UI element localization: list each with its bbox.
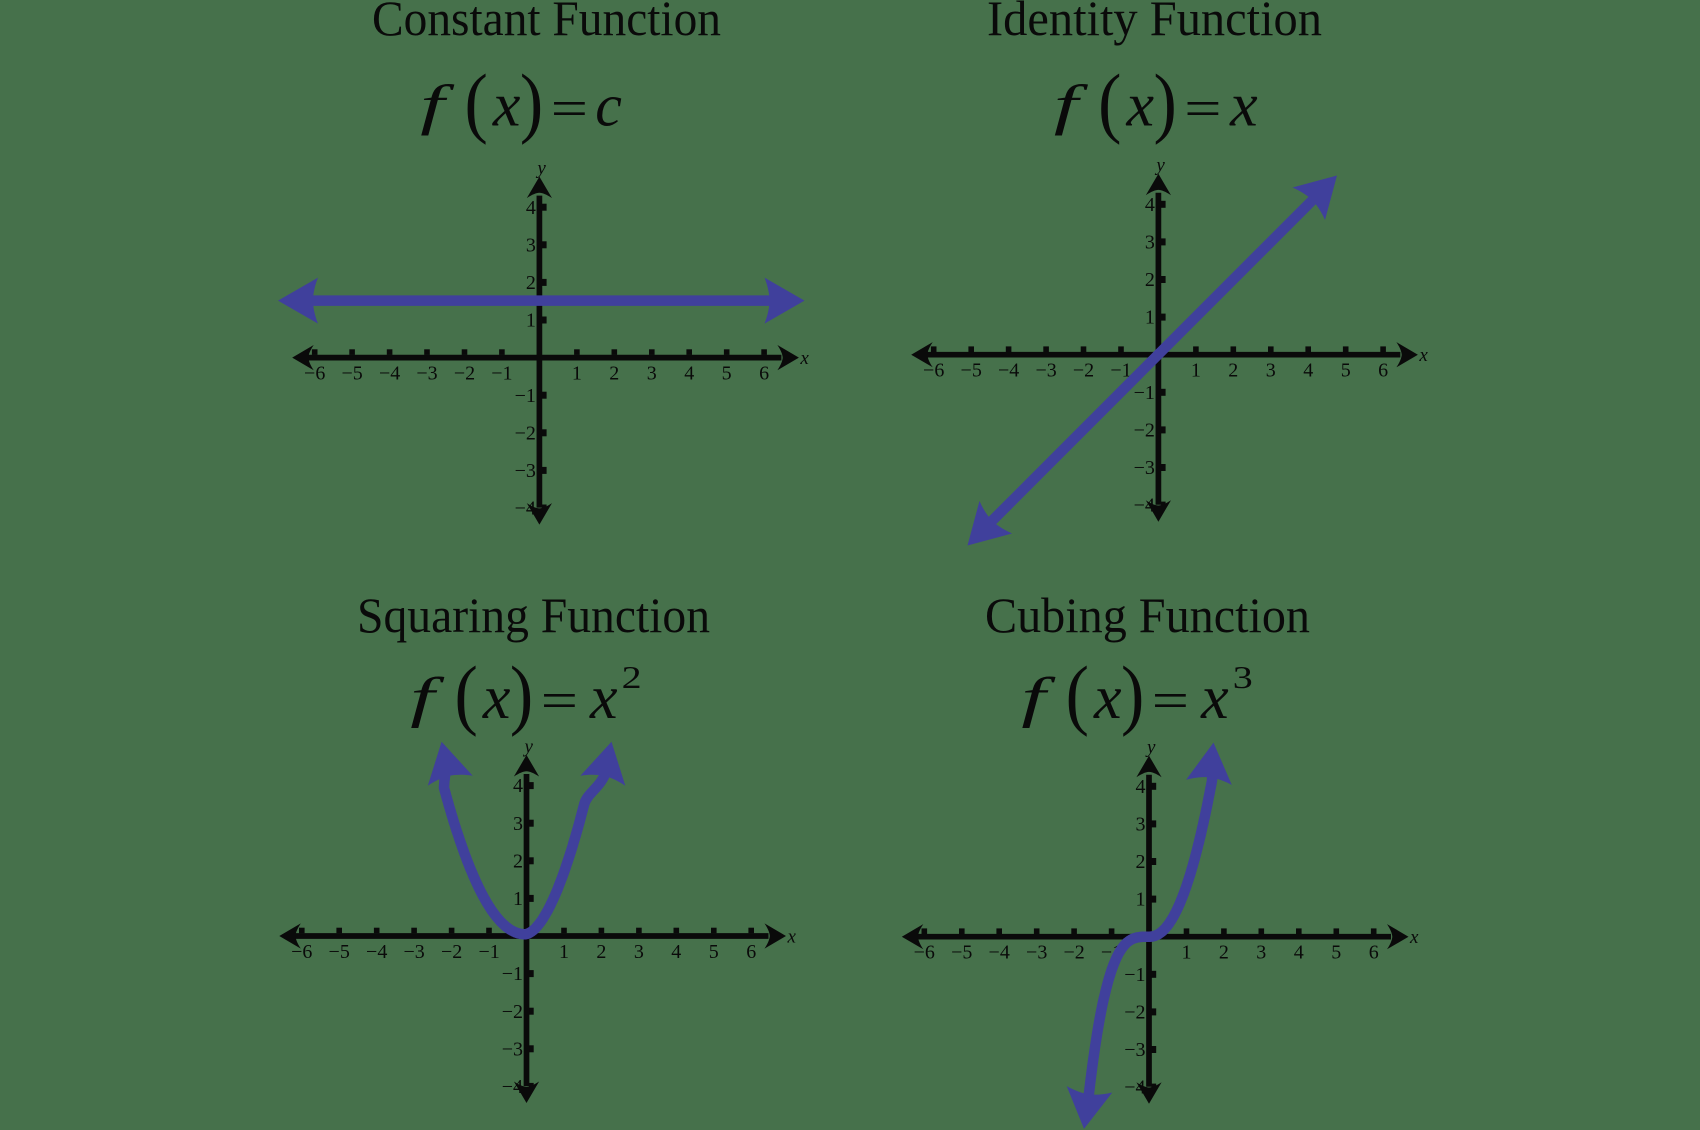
Q2 x-axis: [922, 352, 1400, 358]
Q2 line lower-left arrowhead: [951, 501, 1012, 562]
svg-text:x: x: [492, 72, 521, 140]
svg-text:): ): [520, 59, 543, 146]
Q1 formula f(x)=c: [420, 59, 622, 146]
svg-text:−4: −4: [502, 1076, 523, 1098]
svg-text:4: 4: [1294, 942, 1304, 964]
Q1 y-axis tick marks: [542, 204, 547, 512]
svg-text:4: 4: [1303, 360, 1313, 382]
svg-text:−1: −1: [478, 941, 499, 963]
Q2 line upper-right arrowhead: [1292, 159, 1353, 220]
svg-text:−3: −3: [1035, 360, 1056, 382]
Q3 y-axis numeral labels: [502, 775, 523, 1098]
svg-text:3: 3: [526, 234, 536, 256]
svg-text:−2: −2: [1134, 420, 1155, 442]
svg-text:6: 6: [746, 941, 756, 963]
svg-text:−4: −4: [366, 941, 387, 963]
svg-text:Identity Function: Identity Function: [987, 0, 1322, 46]
svg-text:1: 1: [1191, 360, 1201, 382]
svg-text:1: 1: [1145, 307, 1155, 329]
svg-text:1: 1: [513, 888, 523, 910]
svg-text:−3: −3: [502, 1038, 523, 1060]
svg-text:−5: −5: [341, 363, 362, 385]
Q3 parabola left arrowhead: [419, 737, 473, 786]
svg-text:6: 6: [1369, 942, 1379, 964]
Q4 curve top arrowhead: [1186, 740, 1236, 785]
svg-text:4: 4: [684, 363, 694, 385]
Q3 formula f(x)=x2: [410, 652, 641, 739]
svg-text:3: 3: [634, 941, 644, 963]
svg-text:1: 1: [572, 363, 582, 385]
Q2 x-axis tick marks: [931, 346, 1386, 352]
svg-text:−2: −2: [1063, 942, 1084, 964]
svg-text:−3: −3: [1124, 1039, 1145, 1061]
svg-text:1: 1: [1182, 942, 1192, 964]
svg-text:−2: −2: [1124, 1002, 1145, 1024]
Q3 x-axis numeral labels: [291, 941, 756, 963]
svg-text:): ): [1121, 652, 1144, 739]
svg-text:5: 5: [709, 941, 719, 963]
svg-text:2: 2: [1228, 360, 1238, 382]
Q4 x-axis tick marks: [922, 928, 1377, 934]
svg-text:−4: −4: [998, 360, 1019, 382]
svg-text:4: 4: [513, 775, 523, 797]
svg-text:Constant Function: Constant Function: [372, 0, 721, 46]
Q2 identity function line f(x)=x: [991, 199, 1314, 522]
svg-text:−3: −3: [416, 363, 437, 385]
svg-text:−2: −2: [1073, 360, 1094, 382]
svg-text:−5: −5: [961, 360, 982, 382]
svg-text:(: (: [1098, 59, 1121, 146]
Q1 y-axis numeral labels: [515, 197, 536, 520]
svg-text:=: =: [1184, 79, 1221, 137]
Q1 line left arrowhead: [278, 278, 318, 324]
svg-text:x: x: [1409, 927, 1419, 948]
Q2 y-axis: [1156, 193, 1162, 505]
svg-text:3: 3: [1145, 232, 1155, 254]
svg-text:−2: −2: [454, 363, 475, 385]
svg-text:4: 4: [526, 197, 536, 219]
Q4 formula f(x)=x3: [1021, 652, 1252, 739]
svg-text:y: y: [1145, 737, 1156, 758]
Q4 x-axis numeral labels: [914, 942, 1379, 964]
Q1 line right arrowhead: [765, 278, 805, 324]
svg-text:=: =: [551, 79, 588, 137]
Q4 cubing function curve f(x)=x^3: [1087, 763, 1213, 1112]
svg-text:−3: −3: [1134, 457, 1155, 479]
svg-text:x: x: [1126, 72, 1155, 140]
Q3 y-axis: [524, 774, 530, 1086]
svg-text:−1: −1: [1134, 382, 1155, 404]
svg-text:x: x: [1093, 664, 1122, 732]
svg-text:1: 1: [526, 310, 536, 332]
svg-text:4: 4: [1136, 776, 1146, 798]
svg-text:3: 3: [1233, 660, 1253, 695]
svg-text:): ): [1154, 59, 1177, 146]
svg-text:−4: −4: [1124, 1077, 1145, 1099]
svg-text:5: 5: [722, 363, 732, 385]
svg-text:=: =: [1152, 672, 1189, 730]
svg-text:x: x: [787, 927, 797, 948]
Q4 y-axis tick marks: [1151, 783, 1156, 1091]
svg-text:2: 2: [622, 660, 642, 695]
Q2 y-axis numeral labels: [1134, 194, 1155, 517]
Q4 x-axis: [913, 934, 1391, 940]
svg-text:2: 2: [596, 941, 606, 963]
svg-text:3: 3: [1256, 942, 1266, 964]
svg-text:(: (: [455, 652, 478, 739]
svg-text:−6: −6: [304, 363, 325, 385]
svg-text:−1: −1: [515, 385, 536, 407]
svg-text:(: (: [1066, 652, 1089, 739]
svg-text:−1: −1: [502, 963, 523, 985]
svg-text:Cubing Function: Cubing Function: [985, 587, 1310, 643]
svg-text:(: (: [465, 59, 488, 146]
svg-text:x: x: [1229, 72, 1258, 140]
Q3 x-axis: [291, 933, 769, 939]
svg-text:−2: −2: [502, 1001, 523, 1023]
svg-text:−3: −3: [403, 941, 424, 963]
svg-text:f: f: [420, 74, 454, 136]
svg-text:c: c: [595, 72, 622, 138]
svg-text:6: 6: [759, 363, 769, 385]
Q3 squaring function parabola f(x)=x^2: [444, 763, 607, 934]
Q2 y-axis tick marks: [1161, 201, 1166, 509]
svg-text:2: 2: [526, 272, 536, 294]
Q2 formula f(x)=x: [1054, 59, 1258, 146]
Q1 x-axis: [303, 355, 781, 361]
svg-text:x: x: [1200, 664, 1229, 732]
svg-text:): ): [510, 652, 533, 739]
svg-text:5: 5: [1341, 360, 1351, 382]
Q1 constant function line f(x)=c: [311, 295, 772, 306]
svg-text:−4: −4: [515, 498, 536, 520]
Q3 parabola right arrowhead: [580, 737, 634, 786]
Q4 y-axis numeral labels: [1124, 776, 1145, 1099]
svg-text:x: x: [589, 664, 618, 732]
svg-text:x: x: [482, 664, 511, 732]
svg-text:x: x: [799, 348, 809, 369]
Q1 x-axis tick marks: [312, 349, 767, 355]
svg-text:4: 4: [671, 941, 681, 963]
svg-text:2: 2: [609, 363, 619, 385]
svg-text:2: 2: [1145, 269, 1155, 291]
svg-text:2: 2: [513, 850, 523, 872]
svg-text:3: 3: [1266, 360, 1276, 382]
svg-text:−1: −1: [491, 363, 512, 385]
Q1 y-axis: [537, 196, 543, 508]
svg-text:3: 3: [1136, 814, 1146, 836]
svg-text:x: x: [1418, 345, 1428, 366]
svg-text:−6: −6: [923, 360, 944, 382]
svg-text:=: =: [541, 672, 578, 730]
svg-text:−3: −3: [1026, 942, 1047, 964]
svg-text:f: f: [1054, 74, 1088, 136]
svg-text:y: y: [523, 737, 534, 758]
svg-text:−1: −1: [1124, 964, 1145, 986]
svg-text:2: 2: [1219, 942, 1229, 964]
svg-text:4: 4: [1145, 194, 1155, 216]
svg-text:y: y: [1154, 155, 1165, 176]
svg-text:y: y: [535, 158, 546, 179]
svg-text:1: 1: [1136, 889, 1146, 911]
svg-text:3: 3: [647, 363, 657, 385]
svg-text:−4: −4: [989, 942, 1010, 964]
svg-text:−4: −4: [1134, 495, 1155, 517]
Q3 x-axis tick marks: [299, 928, 754, 934]
svg-text:1: 1: [559, 941, 569, 963]
svg-text:−6: −6: [291, 941, 312, 963]
svg-text:−2: −2: [515, 422, 536, 444]
svg-text:5: 5: [1331, 942, 1341, 964]
Q1 x-axis numeral labels: [304, 363, 769, 385]
Q3 y-axis tick marks: [529, 782, 534, 1090]
Q2 x-axis numeral labels: [923, 360, 1388, 382]
svg-text:f: f: [1021, 666, 1055, 728]
svg-text:−6: −6: [914, 942, 935, 964]
svg-text:2: 2: [1136, 851, 1146, 873]
svg-text:−5: −5: [951, 942, 972, 964]
svg-text:6: 6: [1378, 360, 1388, 382]
Q4 curve bottom arrowhead: [1061, 1086, 1112, 1130]
svg-text:−4: −4: [379, 363, 400, 385]
svg-text:−3: −3: [515, 460, 536, 482]
Q4 y-axis: [1146, 775, 1152, 1087]
svg-text:Squaring Function: Squaring Function: [357, 587, 710, 643]
svg-text:−5: −5: [329, 941, 350, 963]
svg-text:−2: −2: [441, 941, 462, 963]
svg-text:3: 3: [513, 813, 523, 835]
svg-text:f: f: [410, 666, 444, 728]
